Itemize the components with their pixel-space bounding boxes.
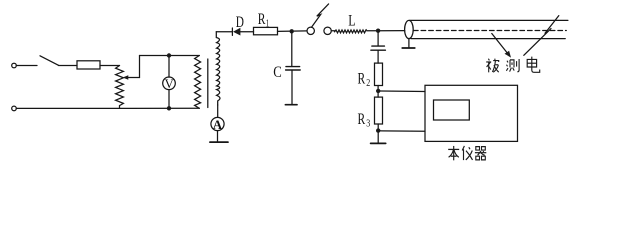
spark gap discharge bolt <box>312 4 329 27</box>
node (C top junction) <box>290 29 294 33</box>
ground (ammeter) <box>210 141 228 143</box>
svg-text:3: 3 <box>366 118 370 129</box>
wire R3 bottom to instrument <box>378 130 425 132</box>
resistor R2 body <box>375 63 383 85</box>
inductor L body <box>335 30 367 33</box>
wire node to voltmeter <box>168 56 170 78</box>
wire gap to inductor <box>331 30 334 32</box>
diode D triangle <box>233 28 240 36</box>
coupling capacitor top plate <box>372 45 385 47</box>
wire J1 to switch <box>16 65 37 67</box>
capacitor C bottom plate <box>286 69 301 71</box>
label 器 (char: qi) <box>475 147 486 160</box>
wire R2 to junction <box>377 86 379 98</box>
cable shield top line <box>410 19 568 21</box>
potentiometer wiper arrow <box>126 77 140 79</box>
label 测 (char: ce) <box>506 59 519 72</box>
instrument box (本仪器) <box>425 85 518 141</box>
cable sheath ellipse <box>405 20 414 38</box>
node (R2-R3 junction) <box>376 89 380 93</box>
wire secondary top to diode <box>216 31 232 33</box>
diode D cathode bar <box>231 28 233 35</box>
ground (cable shield) <box>402 47 415 49</box>
coupling capacitor bottom plate <box>371 49 386 51</box>
wire capacitor to ground <box>291 70 293 104</box>
wire ammeter to ground <box>217 131 219 142</box>
wire node to capacitor C <box>291 31 293 66</box>
terminal J1 (top input) <box>12 63 17 68</box>
wire inductor to cable node <box>367 30 405 32</box>
node (divider top junction) <box>376 29 380 33</box>
cable fault bolt <box>524 16 559 56</box>
spark gap right contact <box>324 27 331 34</box>
svg-text:2: 2 <box>366 78 370 89</box>
svg-text:D: D <box>236 14 244 31</box>
voltmeter V <box>163 77 176 90</box>
label 本 (char: ben) <box>448 146 459 160</box>
cable shield bottom line <box>411 38 565 40</box>
wire wiper up <box>139 56 141 78</box>
wire wiper to transformer primary top <box>140 55 200 57</box>
wire node to coupling capacitor <box>377 31 379 46</box>
svg-text:R: R <box>258 11 266 28</box>
resistor (series box) <box>77 61 100 69</box>
resistor R1 body <box>254 27 278 34</box>
wire voltmeter to bottom rail <box>168 90 170 109</box>
capacitor C top plate <box>286 66 300 68</box>
label 被 (char: bei) <box>486 59 499 73</box>
ground (capacitor C) <box>285 104 297 106</box>
wire capacitor to R2 <box>377 50 379 63</box>
transformer T1 secondary winding <box>216 32 220 105</box>
svg-text:1: 1 <box>266 18 270 29</box>
potentiometer RP body <box>116 66 124 109</box>
transformer T1 primary winding <box>195 56 201 109</box>
switch S1 blade <box>40 56 59 66</box>
wire bottom rail <box>16 107 199 109</box>
cable core conductor (dashed) <box>414 30 567 32</box>
node (R3 bottom junction) <box>376 128 380 132</box>
wire ellipse shield to ground <box>408 39 410 48</box>
wire R2-R3 junction to instrument <box>378 90 425 93</box>
ground (divider) <box>371 142 386 144</box>
transformer T1 core <box>207 59 209 108</box>
wire R1 to spark gap <box>278 30 308 33</box>
ammeter A <box>211 117 224 130</box>
label 仪 (char: yi) <box>462 146 472 160</box>
wire diode to R1 <box>240 31 253 33</box>
label arrow to core <box>492 34 509 55</box>
node (voltmeter top junction) <box>167 53 171 57</box>
spark gap left contact <box>307 27 314 34</box>
svg-text:V: V <box>165 77 174 91</box>
svg-text:L: L <box>348 13 355 30</box>
svg-text:R: R <box>358 111 366 128</box>
svg-text:C: C <box>273 64 282 81</box>
terminal J2 (bottom input) <box>12 106 17 111</box>
svg-text:A: A <box>213 117 223 132</box>
wire resistor to potentiometer <box>100 65 120 67</box>
wire junction to ground <box>377 131 379 143</box>
node (voltmeter bottom junction) <box>167 106 171 110</box>
resistor R3 body <box>375 97 383 124</box>
svg-text:R: R <box>358 71 366 88</box>
wire R3 to bottom junction <box>377 124 379 131</box>
label 电 (char: dian) <box>527 57 540 73</box>
wire secondary bottom to ammeter <box>217 105 219 117</box>
instrument screen <box>434 100 470 120</box>
wire switch to resistor <box>59 65 78 67</box>
